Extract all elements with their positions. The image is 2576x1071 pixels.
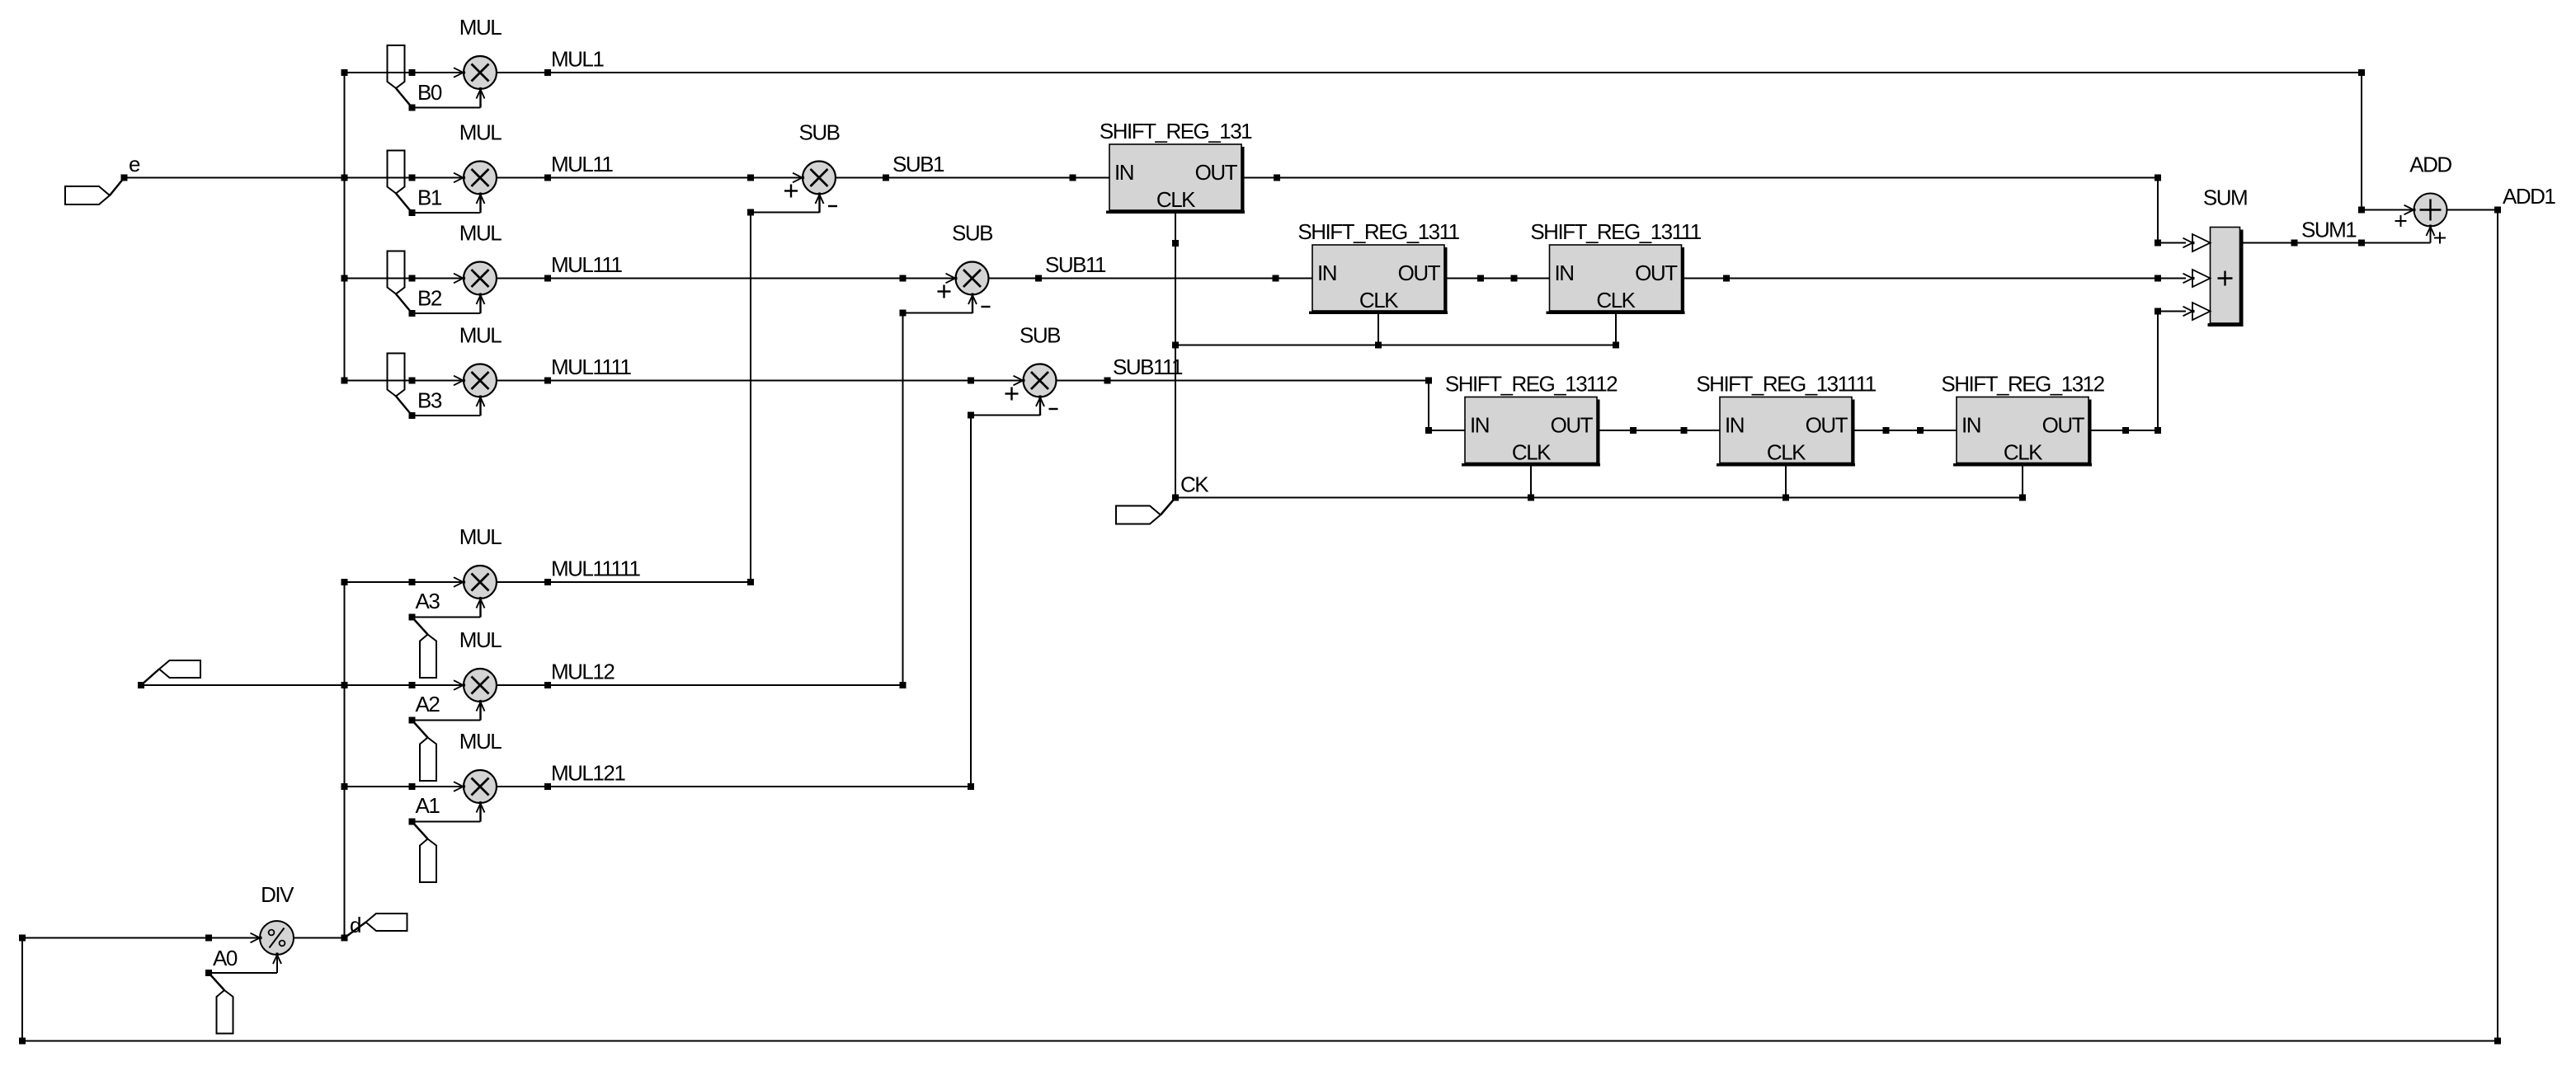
shift register SHIFT_REG_1312 xyxy=(1941,372,2104,467)
wire feedback left vertical xyxy=(21,938,23,1041)
svg-text:SUM1: SUM1 xyxy=(2301,218,2357,242)
subtractor SUB row2 xyxy=(784,120,840,214)
svg-text:MUL1: MUL1 xyxy=(551,47,604,72)
junction at 2165,603.5 xyxy=(1782,495,1789,501)
svg-text:B2: B2 xyxy=(417,286,442,311)
junction at 417.5,954 xyxy=(341,783,348,790)
junction at 1177,503.5 xyxy=(968,412,974,419)
port CK xyxy=(1116,472,1209,524)
junction at 1546.5,337.5 xyxy=(1273,275,1279,282)
junction at 1342.5,461.5 xyxy=(1104,378,1111,384)
coefficient flag B1 xyxy=(388,151,481,217)
wire CLK line row3 regs xyxy=(1175,345,1616,346)
svg-text:d: d xyxy=(350,913,360,937)
junction at 1548,215.5 xyxy=(1274,175,1280,181)
junction at 2863,294.5 xyxy=(2358,240,2365,247)
svg-text:A0: A0 xyxy=(213,946,238,970)
shift register SHIFT_REG_13111 xyxy=(1530,219,1701,314)
svg-text:ADD: ADD xyxy=(2409,153,2451,177)
svg-text:e: e xyxy=(129,152,140,176)
junction at 1425,418.5 xyxy=(1172,342,1179,349)
svg-text:CLK: CLK xyxy=(1596,288,1636,312)
junction at 499.5,706 xyxy=(409,579,416,585)
multiplier MUL rowA2 xyxy=(454,627,502,721)
junction at 910,215.5 xyxy=(747,175,754,181)
wire CK line row5 regs xyxy=(1175,497,2023,499)
junction at 499.5,461.5 xyxy=(409,378,416,384)
junction at 417.5,337.5 xyxy=(341,275,348,282)
svg-text:MUL: MUL xyxy=(459,524,502,549)
svg-text:OUT: OUT xyxy=(1195,160,1238,185)
svg-text:MUL1111: MUL1111 xyxy=(551,355,631,379)
wire SUB row2 minus feed from MUL11111 xyxy=(750,213,751,583)
wire REG_1312 out up to SUM xyxy=(2089,430,2158,431)
svg-text:SHIFT_REG_131111: SHIFT_REG_131111 xyxy=(1696,372,1876,397)
junction at 1959,418.5 xyxy=(1613,342,1619,349)
divider DIV xyxy=(209,882,294,973)
wire SUB111 net row4 xyxy=(1057,380,1429,382)
svg-text:IN: IN xyxy=(1114,160,1133,185)
wire REG_1311 to REG_13111 xyxy=(1444,278,1550,279)
junction at 253,1137.5 xyxy=(205,935,212,942)
junction at 1074,215.5 xyxy=(883,175,889,181)
multiplier MUL row1 xyxy=(454,15,502,108)
shift register SHIFT_REG_1311 xyxy=(1297,219,1459,314)
wire REG_13111 clk stub xyxy=(1615,312,1617,345)
svg-text:SUB: SUB xyxy=(1020,323,1060,348)
svg-text:B0: B0 xyxy=(417,80,442,105)
svg-text:CK: CK xyxy=(1180,472,1209,497)
wire REG_13112 to REG_131111 xyxy=(1597,430,1720,431)
junction at 664,337.5 xyxy=(544,275,551,282)
wire B-input bus vertical xyxy=(344,73,346,381)
svg-text:OUT: OUT xyxy=(1806,413,1848,438)
junction at 1732,461.5 xyxy=(1425,378,1432,384)
svg-text:MUL: MUL xyxy=(459,323,502,348)
svg-text:SUB1: SUB1 xyxy=(892,152,944,176)
svg-text:IN: IN xyxy=(1317,261,1336,285)
wire MUL11 net row2 xyxy=(497,177,803,179)
junction at 1259,337.5 xyxy=(1035,275,1042,282)
coefficient flag B2 xyxy=(388,251,481,317)
junction at 910,706 xyxy=(747,579,754,585)
svg-text:ADD1: ADD1 xyxy=(2503,184,2555,209)
wire SUB11 net row3 xyxy=(989,278,1313,279)
svg-text:B3: B3 xyxy=(417,388,442,413)
port input rowA2 xyxy=(138,660,200,688)
wire A bus vertical xyxy=(344,582,346,938)
svg-text:SUM: SUM xyxy=(2203,186,2247,210)
junction at 1094.5,337.5 xyxy=(900,275,907,282)
svg-text:MUL: MUL xyxy=(459,221,502,246)
junction at 2616,377.5 xyxy=(2155,308,2161,315)
shift register SHIFT_REG_131111 xyxy=(1696,372,1876,467)
svg-text:IN: IN xyxy=(1961,413,1980,438)
junction at 1177,954 xyxy=(968,783,974,790)
wire row2 bus to MUL xyxy=(345,177,464,179)
wire row1 bus to MUL xyxy=(345,72,464,73)
multiplier MUL row3 xyxy=(454,221,502,314)
junction at 2616,337.5 xyxy=(2155,275,2161,282)
junction at 2863,88 xyxy=(2358,69,2365,76)
junction at 664,215.5 xyxy=(544,175,551,181)
wire SUB row3 minus feed from MUL12 xyxy=(902,313,904,686)
wire MUL121 net rowA1 xyxy=(345,786,464,787)
svg-text:MUL11111: MUL11111 xyxy=(551,557,641,581)
subtractor SUB row4 xyxy=(1005,323,1061,416)
wire REG_131111 clk stub xyxy=(1785,463,1787,498)
svg-text:SUB: SUB xyxy=(952,221,992,246)
wire MUL12 net rowA2 xyxy=(141,684,463,686)
junction at 2328,522 xyxy=(1917,427,1924,434)
multiplier MUL row2 xyxy=(454,120,502,214)
subtractor SUB row3 xyxy=(938,221,993,314)
junction at 1177,461.5 xyxy=(968,378,974,384)
port d xyxy=(341,913,407,942)
wire e input to bus xyxy=(125,177,345,179)
multiplier MUL rowA1 xyxy=(454,729,502,822)
svg-text:MUL121: MUL121 xyxy=(551,761,625,786)
svg-text:IN: IN xyxy=(1725,413,1744,438)
svg-text:MUL: MUL xyxy=(459,729,502,754)
junction at 664,831 xyxy=(544,682,551,688)
svg-text:SHIFT_REG_13112: SHIFT_REG_13112 xyxy=(1445,372,1618,397)
svg-text:OUT: OUT xyxy=(1635,261,1678,285)
svg-text:A2: A2 xyxy=(416,692,440,716)
svg-text:MUL: MUL xyxy=(459,627,502,652)
wire REG_131111 to REG_1312 xyxy=(1852,430,1957,431)
multiplier MUL rowA3 xyxy=(454,524,502,618)
junction at 417.5,831 xyxy=(341,682,348,688)
junction at 664,88 xyxy=(544,69,551,76)
svg-text:MUL11: MUL11 xyxy=(551,152,613,176)
wire SHIFT_REG_131 out net xyxy=(1241,177,2158,179)
junction at 1300.5,215.5 xyxy=(1070,175,1076,181)
svg-text:SHIFT_REG_1311: SHIFT_REG_1311 xyxy=(1297,219,1459,244)
wire CLK vertical from REG_131 xyxy=(1175,209,1176,498)
svg-text:A1: A1 xyxy=(416,793,440,818)
junction at 417.5,461.5 xyxy=(341,378,348,384)
junction at 2616,215.5 xyxy=(2155,175,2161,181)
coefficient flag A3 xyxy=(409,589,481,678)
wire row3 bus to MUL xyxy=(345,278,464,279)
junction at 27,1137.5 xyxy=(19,935,26,942)
coefficient flag A0 xyxy=(205,946,238,1034)
coefficient flag A1 xyxy=(409,793,481,882)
junction at 3028,1262.5 xyxy=(2494,1038,2501,1045)
wire ADD1 right vertical xyxy=(2497,210,2498,1041)
junction at 417.5,215.5 xyxy=(341,175,348,181)
svg-text:OUT: OUT xyxy=(1398,261,1441,285)
wire SUB row4 minus feed from MUL121 xyxy=(970,416,972,787)
junction at 2577,522 xyxy=(2122,427,2129,434)
svg-text:OUT: OUT xyxy=(1551,413,1594,438)
junction at 1094.5,379.5 xyxy=(900,310,907,317)
svg-text:CLK: CLK xyxy=(2004,440,2043,465)
coefficient flag B0 xyxy=(388,45,481,111)
wire REG_1311 clk stub xyxy=(1377,312,1379,345)
junction at 1671,418.5 xyxy=(1375,342,1382,349)
junction at 499.5,337.5 xyxy=(409,275,416,282)
svg-text:CLK: CLK xyxy=(1359,288,1399,312)
svg-text:OUT: OUT xyxy=(2042,413,2085,438)
svg-text:DIV: DIV xyxy=(261,882,294,907)
svg-text:SUB111: SUB111 xyxy=(1113,355,1183,379)
junction at 910,257.5 xyxy=(747,209,754,216)
svg-text:IN: IN xyxy=(1470,413,1489,438)
junction at 1980,522 xyxy=(1630,427,1636,434)
svg-text:IN: IN xyxy=(1555,261,1574,285)
svg-text:CLK: CLK xyxy=(1512,440,1552,465)
port e xyxy=(65,152,140,204)
junction at 2781.5,294.5 xyxy=(2291,240,2298,247)
wire MUL111 net row3 xyxy=(497,278,955,279)
multiplier MUL row4 xyxy=(454,323,502,416)
svg-text:MUL: MUL xyxy=(459,15,502,40)
coefficient flag A2 xyxy=(409,692,481,781)
junction at 2093,337.5 xyxy=(1723,275,1730,282)
wire DIV output to bus xyxy=(294,937,345,939)
svg-text:SUB: SUB xyxy=(799,120,840,145)
svg-text:B1: B1 xyxy=(417,186,442,210)
wire REG_13111 out to SUM xyxy=(1682,278,2159,279)
junction at 1795,337.5 xyxy=(1477,275,1484,282)
svg-text:MUL111: MUL111 xyxy=(551,252,622,277)
wire row4 bus to MUL xyxy=(345,380,464,382)
coefficient flag B3 xyxy=(388,354,481,420)
wire DIV input xyxy=(22,937,260,939)
svg-text:SHIFT_REG_1312: SHIFT_REG_1312 xyxy=(1941,372,2104,397)
svg-text:A3: A3 xyxy=(416,589,440,613)
junction at 2616,522 xyxy=(2155,427,2161,434)
junction at 2041.5,522 xyxy=(1681,427,1688,434)
junction at 3028,254.5 xyxy=(2494,207,2501,214)
junction at 499.5,831 xyxy=(409,682,416,688)
wire ADD top input xyxy=(2362,209,2414,211)
junction at 499.5,215.5 xyxy=(409,175,416,181)
junction at 1856,603.5 xyxy=(1528,495,1534,501)
junction at 1732,522 xyxy=(1425,427,1432,434)
wire MUL1111 net row4 xyxy=(497,380,1023,382)
junction at 664,706 xyxy=(544,579,551,585)
wire feedback bottom xyxy=(22,1040,2498,1042)
wire ADD output xyxy=(2447,209,2498,211)
wire MUL1 net row1 xyxy=(497,72,2362,73)
svg-text:MUL: MUL xyxy=(459,120,502,145)
junction at 499.5,954 xyxy=(409,783,416,790)
junction at 1094.5,831 xyxy=(900,682,907,688)
wire REG_13112 clk stub xyxy=(1530,463,1532,498)
adder ADD xyxy=(2395,153,2452,244)
wire REG_1312 clk stub xyxy=(2022,463,2023,498)
svg-text:CLK: CLK xyxy=(1767,440,1806,465)
junction at 2863,254.5 xyxy=(2358,207,2365,214)
junction at 417.5,706 xyxy=(341,579,348,585)
shift register SHIFT_REG_13112 xyxy=(1445,372,1618,467)
junction at 2452,603.5 xyxy=(2019,495,2026,501)
wire MUL11111 net rowA3 xyxy=(345,581,464,583)
junction at 417.5,88 xyxy=(341,69,348,76)
summer SUM xyxy=(2183,186,2248,327)
junction at 664,954 xyxy=(544,783,551,790)
svg-text:SUB11: SUB11 xyxy=(1045,252,1106,277)
shift register SHIFT_REG_131 xyxy=(1100,119,1252,214)
svg-text:CLK: CLK xyxy=(1156,187,1196,212)
junction at 664,461.5 xyxy=(544,378,551,384)
wire SUB1 net row2 xyxy=(836,177,1109,179)
svg-text:SHIFT_REG_131: SHIFT_REG_131 xyxy=(1100,119,1252,143)
junction at 499.5,88 xyxy=(409,69,416,76)
wire SUM1 net xyxy=(2240,242,2431,244)
junction at 1835.5,337.5 xyxy=(1511,275,1518,282)
svg-text:SHIFT_REG_13111: SHIFT_REG_13111 xyxy=(1530,219,1701,244)
svg-text:MUL12: MUL12 xyxy=(551,660,615,684)
junction at 1425,295 xyxy=(1172,240,1179,247)
junction at 27,1262.5 xyxy=(19,1038,26,1045)
junction at 2286.5,522 xyxy=(1883,427,1890,434)
junction at 2616,294.5 xyxy=(2155,240,2161,247)
